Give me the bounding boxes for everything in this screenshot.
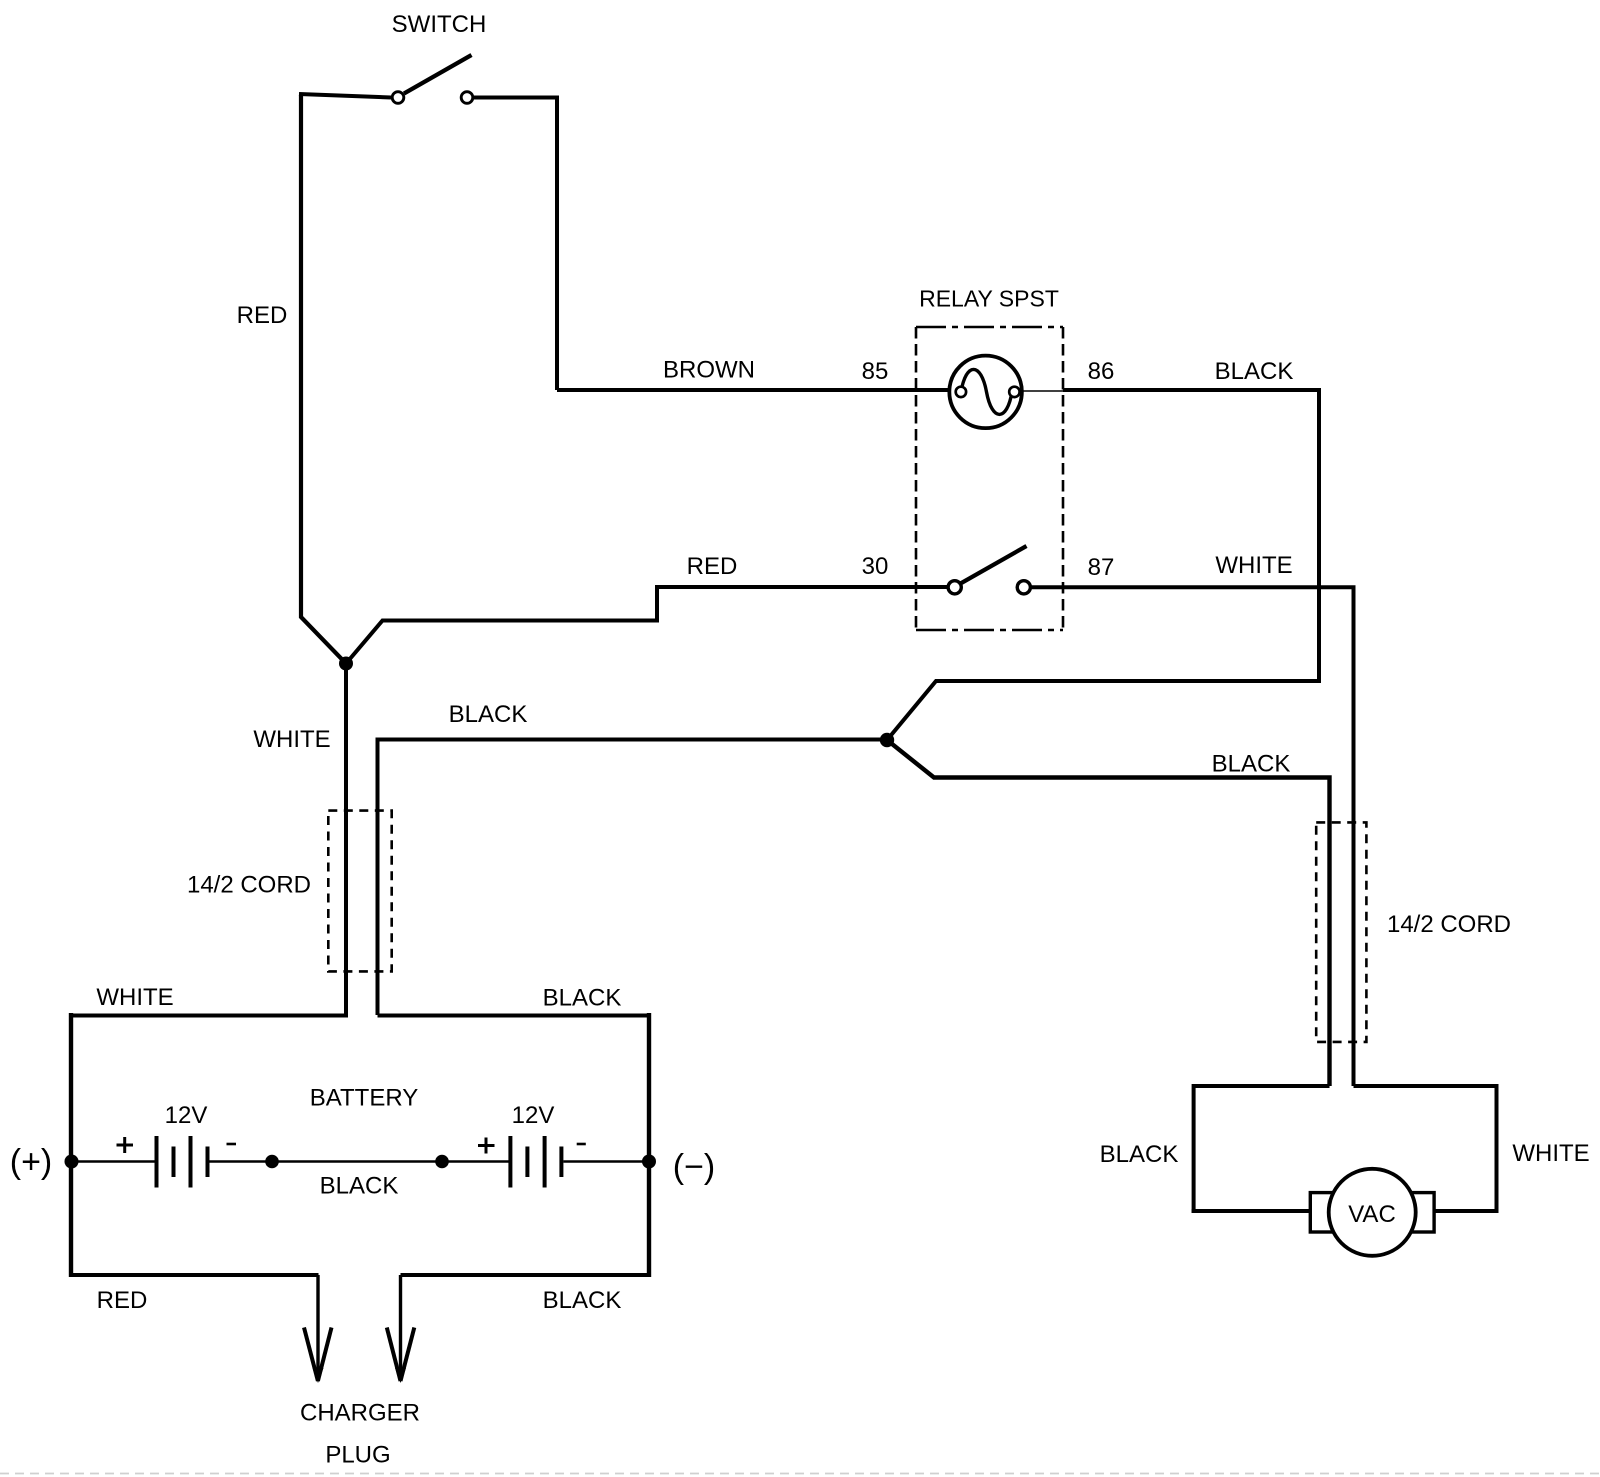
vac box right edge bbox=[1495, 1084, 1499, 1213]
charger plug arrow right bbox=[387, 1275, 415, 1383]
wire WHITE junction to battery bbox=[344, 664, 348, 1016]
svg-text:BLACK: BLACK bbox=[1100, 1141, 1179, 1168]
node battery mid-left bbox=[265, 1155, 279, 1169]
page bottom scan line bbox=[0, 1473, 1600, 1475]
svg-text:CHARGER: CHARGER bbox=[300, 1400, 420, 1427]
svg-text:RED: RED bbox=[97, 1287, 148, 1314]
label + (cell 2) bbox=[478, 1138, 495, 1154]
wire BLACK junction to VAC bbox=[887, 740, 1330, 1086]
svg-text:(−): (−) bbox=[673, 1148, 716, 1186]
svg-text:BLACK: BLACK bbox=[449, 701, 528, 728]
wire WHITE from 87 down to vac bbox=[1030, 587, 1353, 1086]
vac box top-right edge bbox=[1354, 1084, 1497, 1088]
switch S1 bbox=[392, 55, 473, 103]
node (-) terminal bbox=[642, 1155, 656, 1169]
wire RED junction to 30 bbox=[346, 587, 948, 664]
svg-text:BATTERY: BATTERY bbox=[310, 1085, 418, 1112]
wire RED vertical bbox=[301, 95, 346, 664]
vac box top-left edge bbox=[1194, 1084, 1330, 1088]
battery box bottom-left edge bbox=[69, 1273, 319, 1277]
wire battery internal middle bbox=[210, 1160, 509, 1162]
svg-text:BLACK: BLACK bbox=[543, 985, 622, 1012]
svg-text:BLACK: BLACK bbox=[543, 1287, 622, 1314]
vac box bottom-left edge bbox=[1192, 1209, 1311, 1213]
svg-text:RED: RED bbox=[687, 553, 738, 580]
svg-text:BLACK: BLACK bbox=[1215, 358, 1294, 385]
vac box bottom-right edge bbox=[1434, 1209, 1499, 1213]
node battery mid-right bbox=[435, 1155, 449, 1169]
wire BLACK from 86 to junction bbox=[887, 390, 1319, 740]
svg-text:12V: 12V bbox=[512, 1102, 555, 1129]
node (+) terminal bbox=[65, 1155, 79, 1169]
svg-text:(+): (+) bbox=[10, 1143, 53, 1181]
cord box right (dashed) bbox=[1316, 822, 1366, 1042]
svg-text:WHITE: WHITE bbox=[1512, 1140, 1589, 1167]
battery box right edge bbox=[647, 1013, 651, 1277]
svg-text:RED: RED bbox=[237, 302, 288, 329]
wire switch left feed bbox=[299, 94, 391, 98]
cord box left (dashed) bbox=[328, 811, 391, 972]
svg-text:14/2 CORD: 14/2 CORD bbox=[1387, 911, 1511, 938]
wire BLACK battery to junction bbox=[378, 740, 888, 1016]
relay box (dashed) bbox=[916, 327, 1063, 630]
wire BROWN bbox=[557, 388, 951, 392]
wire switch to brown drop bbox=[473, 98, 557, 391]
motor terminal left bbox=[1310, 1193, 1333, 1232]
motor terminal right bbox=[1412, 1193, 1435, 1232]
battery cell B2 bbox=[510, 1136, 561, 1188]
svg-text:86: 86 bbox=[1088, 358, 1115, 385]
label - (cell 2) bbox=[577, 1143, 586, 1146]
relay coil U1 bbox=[949, 356, 1022, 429]
svg-text:87: 87 bbox=[1088, 554, 1115, 581]
wire battery internal left bbox=[72, 1160, 155, 1162]
wire coil pin 86 thin stub bbox=[1019, 390, 1063, 392]
wire battery internal right bbox=[563, 1160, 649, 1162]
node junction left bbox=[339, 657, 353, 671]
svg-text:BLACK: BLACK bbox=[1212, 751, 1291, 778]
battery box top-left edge bbox=[69, 1014, 348, 1018]
vac box left edge bbox=[1192, 1084, 1196, 1213]
node junction right bbox=[880, 733, 894, 747]
motor VAC bbox=[1329, 1169, 1416, 1256]
svg-text:85: 85 bbox=[862, 358, 889, 385]
svg-text:BLACK: BLACK bbox=[320, 1173, 399, 1200]
svg-text:PLUG: PLUG bbox=[325, 1442, 390, 1469]
charger plug arrow left bbox=[304, 1275, 332, 1383]
battery box top-right edge bbox=[378, 1014, 650, 1018]
svg-text:30: 30 bbox=[862, 553, 889, 580]
svg-text:WHITE: WHITE bbox=[96, 984, 173, 1011]
svg-text:VAC: VAC bbox=[1348, 1201, 1396, 1228]
svg-text:12V: 12V bbox=[165, 1102, 208, 1129]
label + (cell 1) bbox=[117, 1137, 134, 1153]
svg-text:BROWN: BROWN bbox=[663, 357, 755, 384]
svg-text:SWITCH: SWITCH bbox=[392, 11, 487, 38]
battery cell B1 bbox=[157, 1136, 208, 1188]
svg-text:WHITE: WHITE bbox=[1215, 552, 1292, 579]
svg-text:WHITE: WHITE bbox=[253, 726, 330, 753]
label - (cell 1) bbox=[227, 1143, 237, 1146]
relay switch contacts bbox=[948, 546, 1030, 594]
battery box bottom-right edge bbox=[401, 1273, 652, 1277]
svg-text:14/2 CORD: 14/2 CORD bbox=[187, 872, 311, 899]
svg-text:RELAY SPST: RELAY SPST bbox=[919, 286, 1059, 312]
battery box left edge bbox=[69, 1013, 73, 1277]
